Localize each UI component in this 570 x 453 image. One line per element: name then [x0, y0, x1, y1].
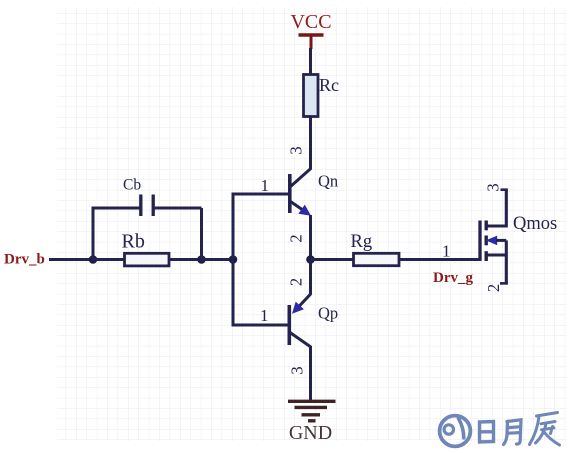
wire Rg to Qmos gate [399, 258, 481, 261]
wire node down to Qp emitter [309, 260, 312, 295]
wire Drv_b to junction [49, 258, 93, 261]
junction left of Rb [89, 255, 98, 264]
svg-text:2: 2 [287, 234, 306, 242]
watermark text ri [480, 422, 494, 443]
power symbol VCC [290, 11, 331, 49]
wire base branch down to Qp base [232, 258, 289, 325]
svg-text:Qn: Qn [318, 172, 338, 191]
wire VCC to Rc [309, 48, 312, 75]
svg-text:Qp: Qp [318, 304, 338, 323]
svg-text:3: 3 [287, 146, 306, 154]
junction right of Rb [197, 255, 206, 264]
svg-text:Cb: Cb [123, 177, 141, 194]
svg-text:GND: GND [289, 422, 332, 444]
svg-text:Rg: Rg [351, 232, 373, 252]
capacitor Cb [92, 177, 202, 262]
svg-text:VCC: VCC [290, 11, 331, 33]
wire Qp collector to ground [309, 346, 312, 401]
wire junction to Rb [93, 258, 125, 261]
svg-text:2: 2 [484, 284, 503, 292]
svg-text:1: 1 [260, 306, 269, 325]
svg-text:Drv_g: Drv_g [433, 270, 473, 286]
svg-text:2: 2 [287, 278, 306, 286]
svg-text:Qmos: Qmos [513, 214, 557, 234]
resistor Rc [304, 75, 340, 117]
resistor Rb [122, 231, 170, 266]
wire Rc to Qn collector [309, 117, 312, 170]
transistor Qmos [480, 190, 557, 284]
svg-text:3: 3 [484, 183, 503, 191]
wire junction to base branch [202, 258, 234, 261]
wire base branch up to Qn base [232, 194, 290, 261]
watermark text chen [530, 413, 560, 446]
ground GND [288, 401, 336, 444]
resistor Rg [351, 232, 400, 266]
transistor Qp [289, 294, 338, 347]
transistor Qn [290, 169, 338, 216]
wire Qn emitter down to node [309, 215, 312, 260]
wire node to Rg [311, 258, 355, 261]
wire Rb to junction [169, 258, 202, 261]
svg-text:1: 1 [261, 176, 270, 195]
svg-text:Rc: Rc [319, 75, 339, 95]
junction base branch [229, 255, 238, 264]
svg-text:Drv_b: Drv_b [4, 252, 45, 268]
svg-text:Rb: Rb [122, 231, 145, 253]
svg-text:3: 3 [288, 366, 307, 374]
svg-text:1: 1 [442, 242, 451, 261]
watermark text yue [504, 420, 522, 445]
watermark logo circle [440, 416, 471, 447]
junction node center [306, 255, 315, 264]
